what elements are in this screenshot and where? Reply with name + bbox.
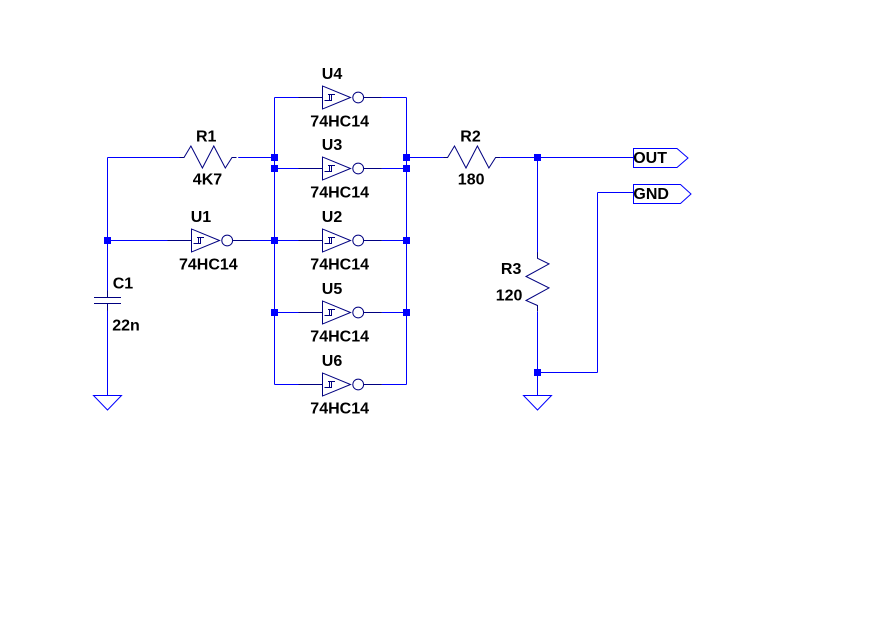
junction R3 bottom / ground <box>534 369 541 376</box>
wire U4 output to right bus <box>382 97 407 99</box>
wire GND riser to GND flag <box>598 192 634 194</box>
wire left bus to U6 input <box>275 384 299 386</box>
wire U6 output to right bus <box>382 384 407 386</box>
svg-text:C1: C1 <box>113 276 134 293</box>
ground symbol left <box>94 396 122 411</box>
output flag GND <box>633 185 691 204</box>
wire node A to U1 input <box>108 240 169 242</box>
resistor R1 <box>180 146 237 168</box>
inverter U1 <box>168 229 251 253</box>
wire left rail down to C1 <box>107 158 109 291</box>
svg-text:R1: R1 <box>196 128 217 145</box>
svg-text:74HC14: 74HC14 <box>310 185 369 202</box>
wire OUT node down to R3 <box>537 158 539 253</box>
junction left bus / U3 input <box>271 165 278 172</box>
svg-text:74HC14: 74HC14 <box>179 257 238 274</box>
junction node A (C1/U1) <box>104 237 111 244</box>
svg-text:R3: R3 <box>501 261 522 278</box>
junction right bus / U3 output <box>403 165 410 172</box>
wire U2 output to right bus <box>382 240 407 242</box>
svg-text:74HC14: 74HC14 <box>310 329 369 346</box>
resistor R3 <box>526 252 549 311</box>
svg-text:U1: U1 <box>191 209 212 226</box>
wire C1 to ground <box>107 311 109 396</box>
junction right bus / R2 <box>403 154 410 161</box>
wire left bus to U2 input <box>275 240 299 242</box>
wire R1 left node to top-left corner <box>108 157 180 159</box>
wire right bus to R2 <box>407 157 444 159</box>
output flag OUT <box>633 149 688 168</box>
junction left bus / U1-U2 <box>271 237 278 244</box>
wire R2 to OUT flag <box>500 157 633 159</box>
svg-text:120: 120 <box>496 287 523 304</box>
wire GND riser vertical <box>597 193 599 373</box>
junction right bus / U2 output <box>403 237 410 244</box>
inverter U2 <box>299 229 382 253</box>
inverter U4 <box>299 86 382 110</box>
resistor R2 <box>443 146 500 168</box>
junction right bus / U5 output <box>403 309 410 316</box>
wire U5 output to right bus <box>382 312 407 314</box>
svg-text:U5: U5 <box>322 281 343 298</box>
wire U1 output to left bus <box>251 240 275 242</box>
wire left bus to U4 input <box>275 97 299 99</box>
inverter U5 <box>299 301 382 325</box>
inverter U6 <box>299 373 382 397</box>
junction left bus / R1 <box>271 154 278 161</box>
wire left bus vertical <box>274 98 276 385</box>
wire left bus to U5 input <box>275 312 299 314</box>
wire left bus to U3 input <box>275 168 299 170</box>
svg-text:U2: U2 <box>322 209 343 226</box>
svg-text:U4: U4 <box>322 66 343 83</box>
junction OUT node / R3 top <box>534 154 541 161</box>
ground symbol right <box>524 396 552 411</box>
wire ground node to GND riser <box>538 372 598 374</box>
wire U3 output to right bus <box>382 168 407 170</box>
wire R3 to ground node <box>537 312 539 396</box>
svg-text:U3: U3 <box>322 137 343 154</box>
svg-text:GND: GND <box>633 186 669 203</box>
svg-text:4K7: 4K7 <box>193 172 222 189</box>
svg-text:74HC14: 74HC14 <box>310 401 369 418</box>
svg-text:74HC14: 74HC14 <box>310 114 369 131</box>
wire R1 right to left bus <box>238 157 274 159</box>
inverter U3 <box>299 157 382 181</box>
svg-text:R2: R2 <box>460 128 481 145</box>
svg-text:74HC14: 74HC14 <box>310 257 369 274</box>
svg-text:180: 180 <box>458 172 485 189</box>
capacitor C1 <box>94 291 121 311</box>
svg-text:OUT: OUT <box>633 150 667 167</box>
svg-text:U6: U6 <box>322 353 343 370</box>
wire right bus vertical <box>406 98 408 385</box>
svg-text:22n: 22n <box>112 318 140 335</box>
junction left bus / U5 input <box>271 309 278 316</box>
